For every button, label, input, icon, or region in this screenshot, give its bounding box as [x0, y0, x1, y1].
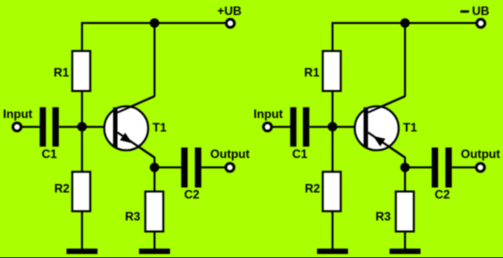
terminal: -UB: [477, 19, 485, 27]
resistor R2 (right): [323, 172, 341, 211]
node: base divider junction (right): [328, 122, 338, 132]
wire: collector vertical (right): [404, 23, 406, 96]
capacitor C1 (right): [290, 107, 309, 146]
ground (R3 branch, right): [390, 249, 421, 254]
svg-text:Input: Input: [254, 107, 283, 121]
wire: R2 bottom to ground (right): [332, 211, 334, 250]
wire: top supply rail with R1 elbow (right): [333, 23, 481, 51]
terminal: Input: [13, 123, 21, 131]
bottom edge line: [0, 257, 503, 258]
resistor R1: [72, 51, 90, 91]
wire: R1 bottom to R2 top through node: [81, 91, 83, 172]
wire: input terminal to C1 (right): [270, 126, 292, 128]
svg-text:R2: R2: [54, 182, 70, 196]
wire: C1 to base: [59, 126, 115, 128]
wire: input terminal to C1: [19, 126, 41, 128]
wire: collector diagonal: [118, 96, 155, 112]
resistor R3: [145, 192, 163, 232]
svg-text:Input: Input: [3, 107, 32, 121]
terminal: Output (right): [476, 163, 484, 171]
svg-text:R3: R3: [125, 210, 141, 224]
svg-text:+UB: +UB: [217, 4, 242, 18]
svg-text:UB: UB: [472, 4, 490, 18]
capacitor C2: [181, 148, 201, 188]
svg-text:C1: C1: [42, 147, 58, 161]
capacitor C1: [40, 107, 59, 146]
node: emitter junction (right): [400, 163, 410, 173]
terminal: Output: [226, 163, 234, 171]
terminal: Input (right): [263, 123, 271, 131]
wire: emitter diagonal: [118, 132, 155, 157]
resistor R3 (right): [396, 192, 414, 232]
resistor R2: [72, 172, 90, 211]
svg-text:C2: C2: [435, 187, 451, 201]
svg-text:R3: R3: [375, 210, 391, 224]
wire: emitter node to C2 (right): [405, 166, 432, 168]
wire: emitter vertical to R3: [154, 157, 156, 192]
ground (R3 branch): [139, 249, 170, 254]
wire: R3 bottom to ground: [154, 231, 156, 250]
wire: collector diagonal (right): [368, 96, 405, 112]
node: base divider junction: [77, 122, 87, 132]
ground (R2 branch): [67, 249, 98, 254]
wire: collector vertical: [154, 23, 156, 96]
node: rail junction (right): [400, 18, 410, 28]
svg-text:R1: R1: [304, 65, 320, 79]
wire: emitter vertical to R3 (right): [404, 157, 406, 192]
transistor T1 (NPN): [104, 96, 154, 157]
wire: C1 to base (right): [310, 126, 366, 128]
wire: emitter node to C2: [155, 166, 182, 168]
terminal: +UB: [226, 19, 234, 27]
capacitor C2 (right): [432, 148, 452, 188]
svg-text:C2: C2: [184, 187, 200, 201]
node: emitter junction: [150, 163, 160, 173]
svg-text:R2: R2: [305, 182, 321, 196]
wire: R3 bottom to ground (right): [404, 231, 406, 250]
transistor T1 (PNP, right): [355, 96, 405, 157]
wire: top supply rail with R1 elbow: [82, 23, 230, 51]
wire: C2 to output terminal: [201, 166, 228, 168]
wire: R2 bottom to ground: [81, 211, 83, 250]
label -UB: [460, 4, 489, 18]
wire: C2 to output terminal (right): [452, 166, 479, 168]
ground (R2 branch, right): [317, 249, 348, 254]
svg-text:T1: T1: [403, 121, 417, 135]
svg-text:T1: T1: [153, 121, 167, 135]
svg-text:C1: C1: [292, 147, 308, 161]
node: rail junction: [150, 18, 160, 28]
svg-text:Output: Output: [210, 147, 249, 161]
resistor R1 (right): [323, 51, 341, 91]
wire: emitter diagonal (right): [368, 132, 405, 157]
wire: R1 bottom to R2 top through node (right): [332, 91, 334, 172]
svg-text:R1: R1: [54, 65, 70, 79]
svg-text:Output: Output: [461, 147, 500, 161]
